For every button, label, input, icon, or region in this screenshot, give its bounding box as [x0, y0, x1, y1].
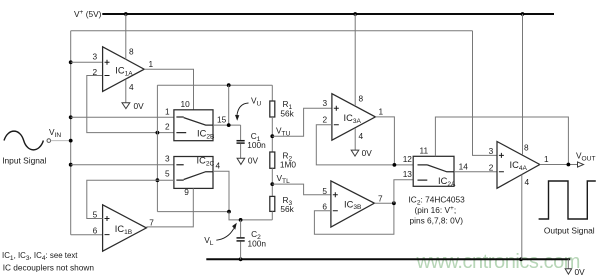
resistor R1: [271, 85, 273, 101]
output square wave: [539, 181, 596, 219]
node on top horizontal at x228.7: [227, 83, 231, 87]
svg-text:Output Signal: Output Signal: [544, 226, 595, 236]
node VTL: [270, 182, 274, 186]
node pin4 junction: [227, 210, 231, 214]
node VTU: [270, 134, 274, 138]
op-amp IC1A: [103, 47, 145, 92]
svg-text:Input Signal: Input Signal: [2, 156, 46, 166]
svg-text:10: 10: [181, 99, 191, 109]
svg-text:13: 13: [403, 169, 413, 179]
svg-text:1: 1: [149, 59, 154, 69]
capacitor C1: [240, 125, 242, 140]
ground under C1: [237, 158, 245, 164]
wire IC3B output up to IC2A pin13: [394, 180, 413, 203]
svg-text:pins 6,7,8: 0V): pins 6,7,8: 0V): [410, 216, 464, 226]
svg-text:100n: 100n: [248, 239, 267, 249]
node bus-VIN: [69, 139, 73, 143]
svg-text:3: 3: [93, 51, 98, 61]
svg-text:8: 8: [524, 143, 529, 153]
node bus-IC2C pin3: [69, 163, 73, 167]
0V ground rail: [206, 258, 570, 260]
wire bus to IC1A pin3: [71, 61, 103, 63]
svg-text:www.cntronics.com: www.cntronics.com: [416, 251, 581, 273]
svg-text:4: 4: [525, 177, 530, 187]
op-amp IC4A: [497, 142, 540, 189]
svg-text:V+ (5V): V+ (5V): [74, 9, 102, 19]
svg-text:0V: 0V: [248, 155, 259, 165]
junction on V+ rail at IC4A pin8: [521, 12, 525, 16]
wire top feedback line: [71, 30, 473, 32]
svg-text:0V: 0V: [362, 148, 373, 158]
wire VIN bus vertical: [70, 31, 72, 235]
wire bus to IC1B pin6: [71, 234, 103, 236]
svg-text:15: 15: [217, 115, 227, 125]
pin 4 wire IC2C down to node: [213, 171, 229, 211]
svg-text:56k: 56k: [280, 108, 294, 118]
pin 11 wire IC2A control from VOUT: [435, 117, 568, 165]
pin 8 IC1A wire: [125, 14, 127, 60]
svg-text:(pin 16: V+;: (pin 16: V+;: [415, 205, 457, 215]
wire bus to IC2B pin1: [71, 116, 174, 118]
pin 1 IC4A output wire: [540, 164, 578, 166]
junction on 0V rail at C2: [239, 257, 243, 261]
ground under IC3A: [351, 150, 359, 156]
svg-text:3: 3: [165, 154, 170, 164]
wire IC1A pin2 feedback: [87, 76, 174, 133]
svg-text:56k: 56k: [280, 204, 294, 214]
svg-text:100n: 100n: [247, 140, 266, 150]
junction on V+ rail at IC3A pin8: [353, 12, 357, 16]
node bus-IC1A pin3: [69, 60, 73, 64]
svg-text:4: 4: [129, 82, 134, 92]
svg-text:6: 6: [93, 225, 98, 235]
VIN terminal circle: [47, 139, 51, 143]
wire IC3B pin6 feedback loop: [314, 203, 394, 234]
wire junction down to C2 level: [229, 212, 272, 220]
pin 15 wire IC2B to C1: [213, 124, 241, 126]
analog switch IC2A: [413, 156, 454, 186]
pin 14 wire IC2A to IC4A pin2: [454, 171, 497, 173]
node A junction on pin2 wire: [156, 131, 160, 135]
input sine wave symbol: [4, 131, 43, 150]
svg-text:7: 7: [378, 194, 383, 204]
VOUT terminal arrow: [578, 162, 584, 167]
pin 1 IC1A output wire to IC2B pin10: [144, 69, 193, 110]
wire right branch down to IC4A pin3: [473, 31, 498, 156]
ground under IC1A: [122, 103, 130, 109]
node C2 top: [239, 218, 243, 222]
V+ (5V) power rail: [102, 13, 554, 15]
analog switch IC2B: [174, 110, 213, 141]
svg-text:7: 7: [149, 217, 154, 227]
svg-text:11: 11: [420, 146, 429, 156]
svg-text:1: 1: [165, 107, 170, 117]
svg-text:8: 8: [129, 47, 134, 57]
ground symbol at right end of 0V rail: [567, 259, 569, 269]
junction on V+ rail at IC1A pin8: [124, 12, 128, 16]
svg-text:5: 5: [93, 209, 98, 219]
wire node A vertical: [156, 85, 158, 211]
svg-text:5: 5: [165, 169, 170, 179]
svg-text:5: 5: [322, 186, 327, 196]
capacitor C2: [240, 220, 242, 237]
svg-text:0V: 0V: [134, 101, 145, 111]
svg-text:0V: 0V: [575, 267, 586, 277]
resistor R2: [270, 152, 275, 168]
node bus-IC2B pin1: [69, 115, 73, 119]
wire bus to IC2C pin3: [71, 164, 174, 166]
wire node A bottom horizontal: [157, 211, 229, 213]
wire VIN terminal to bus: [51, 140, 71, 142]
node VOUT: [567, 163, 571, 167]
pin 8 IC4A wire: [522, 14, 524, 155]
op-amp IC3B: [331, 181, 375, 227]
svg-text:2: 2: [93, 67, 98, 77]
svg-text:3: 3: [489, 146, 494, 156]
svg-text:2: 2: [165, 122, 170, 132]
pin 8 IC3A wire: [354, 14, 356, 106]
svg-text:9: 9: [184, 187, 189, 197]
node A junction on IC2C pin5 wire: [156, 178, 160, 182]
pin 4 IC3A wire to ground: [354, 128, 356, 150]
wire node A top horizontal to R1: [157, 84, 272, 86]
wire VTL to IC3B pin5: [272, 184, 331, 195]
node IC3A feedback: [393, 163, 397, 167]
pin 9 wire IC2C to IC1B pin7: [146, 188, 193, 227]
svg-text:1M0: 1M0: [280, 160, 297, 170]
analog switch IC2C: [174, 157, 213, 189]
svg-text:1: 1: [544, 154, 549, 164]
pin 4 IC1A wire to ground: [125, 80, 127, 103]
svg-text:8: 8: [359, 94, 364, 104]
op-amp IC3A: [332, 94, 376, 141]
svg-text:2: 2: [489, 163, 494, 173]
wire IC1B pin5 up to IC2C pin5: [87, 180, 174, 218]
node pin15 junction: [227, 123, 231, 127]
svg-text:1: 1: [379, 107, 384, 117]
svg-text:4: 4: [359, 131, 364, 141]
wire IC3B pin7 output: [374, 202, 394, 204]
svg-text:14: 14: [459, 161, 469, 171]
svg-text:3: 3: [323, 98, 328, 108]
pin 4 IC4A wire to 0V rail: [521, 175, 523, 260]
op-amp IC1B: [103, 205, 147, 251]
svg-text:IC decouplers not shown: IC decouplers not shown: [3, 263, 95, 273]
node IC3B output: [392, 201, 396, 205]
svg-text:2: 2: [323, 115, 328, 125]
svg-text:12: 12: [403, 154, 413, 164]
svg-text:4: 4: [216, 161, 221, 171]
wire VTU to IC3A pin3: [272, 108, 332, 136]
svg-text:6: 6: [322, 202, 327, 212]
resistor R3: [270, 196, 275, 211]
wire vertical x228.7 from top horizontal to pin15: [228, 85, 230, 125]
junction on 0V rail at IC4A pin4: [519, 257, 523, 261]
wire IC3A pin1 to IC2A pin12 with feedback to pin2: [375, 117, 394, 165]
